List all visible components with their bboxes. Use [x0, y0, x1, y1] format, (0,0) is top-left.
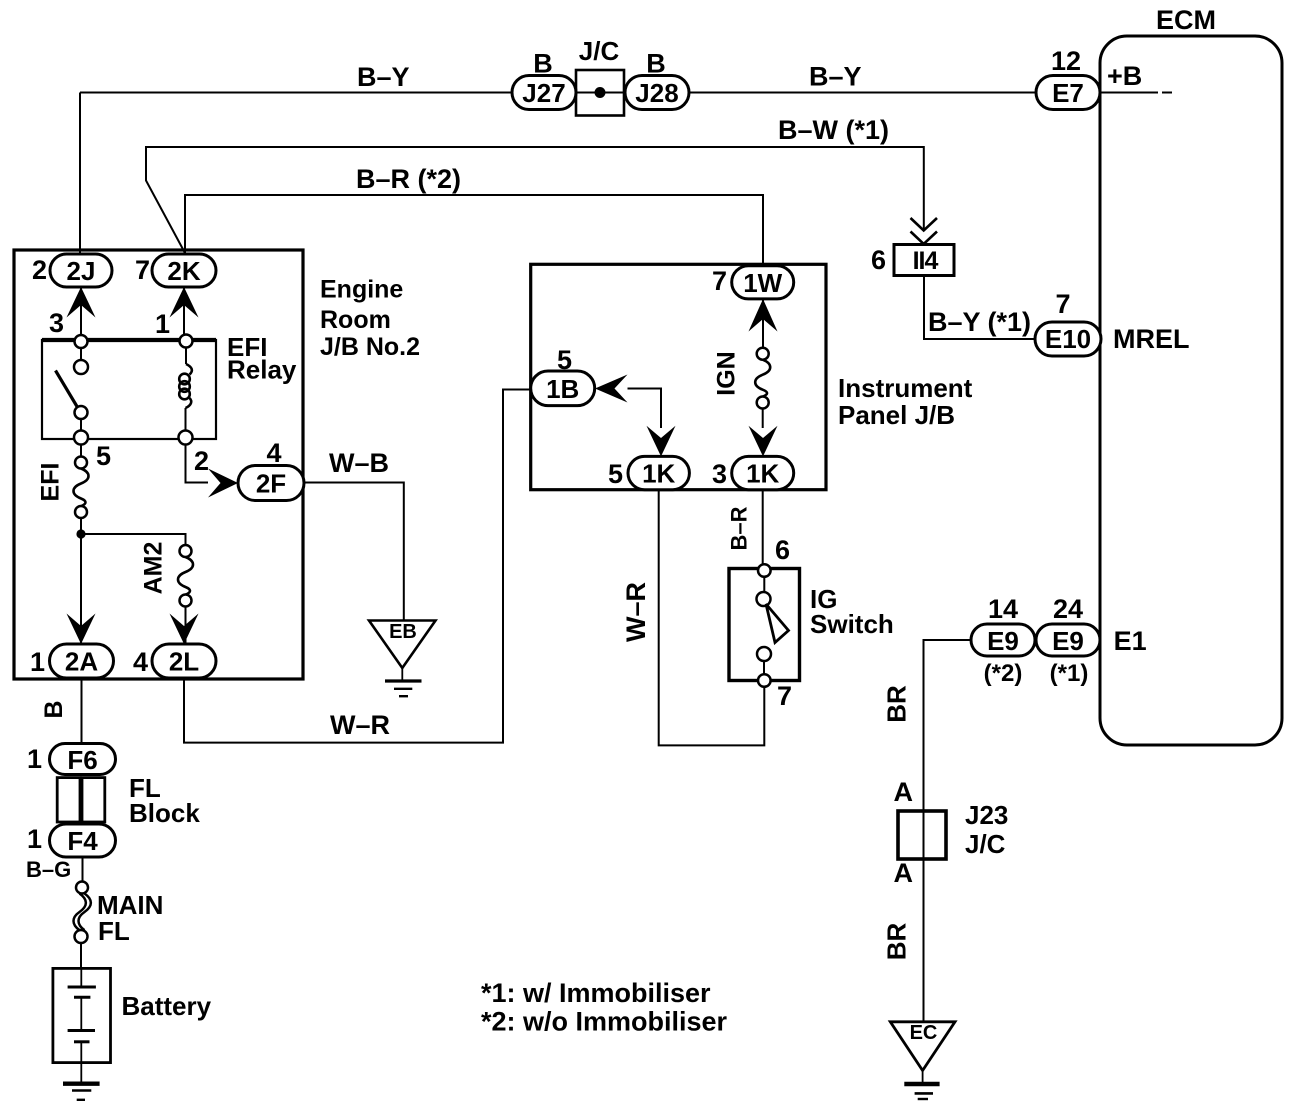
svg-text:B–Y: B–Y — [809, 62, 862, 92]
wire relay pin3 terminal to fixed contact — [80, 348, 82, 360]
svg-text:J/C: J/C — [579, 36, 620, 66]
label EFI Relay — [227, 332, 297, 385]
down arrow above 2L — [170, 614, 199, 645]
IG switch lower contact — [757, 647, 771, 661]
fuse IGN — [755, 348, 770, 409]
svg-text:E7: E7 — [1052, 78, 1084, 108]
svg-text:1: 1 — [27, 824, 42, 854]
up arrow below 1W — [749, 299, 778, 332]
ground EB triangle — [369, 621, 436, 669]
wire 2J to relay pin 3 — [80, 287, 82, 335]
svg-text:2: 2 — [194, 446, 209, 476]
svg-text:7: 7 — [1055, 289, 1070, 319]
connector 1W — [732, 266, 794, 299]
svg-text:Relay: Relay — [227, 355, 297, 385]
ECM box — [1100, 36, 1282, 745]
svg-text:B–G: B–G — [26, 857, 71, 882]
Instrument Panel J/B box — [531, 264, 826, 489]
svg-text:4: 4 — [133, 647, 148, 677]
svg-text:A: A — [894, 777, 914, 807]
svg-text:MREL: MREL — [1113, 324, 1190, 354]
wire B-R (*2) from 2K to 1W — [185, 195, 763, 266]
wire W-B from 2F to ground EB — [304, 483, 404, 621]
svg-text:1: 1 — [30, 647, 45, 677]
label Engine Room J/B No.2 — [320, 276, 420, 362]
svg-text:EB: EB — [389, 621, 417, 643]
up arrow below 2J — [67, 287, 96, 318]
connector E9 (*2) — [971, 624, 1035, 656]
svg-text:6: 6 — [871, 245, 886, 275]
label Instrument Panel J/B — [838, 373, 973, 430]
svg-text:J/C: J/C — [965, 829, 1006, 859]
ground below battery — [63, 1063, 100, 1100]
connector box II4 — [894, 245, 954, 276]
svg-text:AM2: AM2 — [140, 542, 168, 595]
svg-text:14: 14 — [988, 594, 1018, 624]
svg-text:J27: J27 — [522, 78, 565, 108]
svg-text:*2: w/o Immobiliser: *2: w/o Immobiliser — [481, 1007, 728, 1037]
connector 1K (pin 3) — [732, 456, 794, 489]
svg-text:1: 1 — [155, 309, 170, 339]
svg-text:1: 1 — [27, 744, 42, 774]
label J23 J/C — [965, 800, 1008, 859]
svg-text:E10: E10 — [1045, 324, 1091, 354]
Engine Room J/B No.2 box — [14, 250, 303, 679]
svg-text:12: 12 — [1051, 46, 1081, 76]
svg-text:B–Y: B–Y — [357, 62, 410, 92]
svg-text:J28: J28 — [635, 78, 678, 108]
svg-text:5: 5 — [608, 459, 623, 489]
up arrow below 2K — [170, 287, 199, 318]
relay terminal pin5 on box bottom — [74, 431, 88, 445]
svg-text:1W: 1W — [743, 268, 782, 298]
svg-text:B–W (*1): B–W (*1) — [778, 115, 889, 145]
svg-text:ECM: ECM — [1156, 5, 1216, 35]
relay terminal pin1 on box top — [180, 335, 193, 348]
relay switch blade — [56, 371, 79, 410]
junction connector box J/C — [576, 70, 624, 116]
left arrow into 1B — [595, 375, 628, 403]
wire B-Y from J28 to ECM pin E7 — [689, 92, 1036, 94]
svg-text:7: 7 — [777, 681, 792, 711]
wire junction to AM2 branch — [81, 534, 186, 546]
wire segment inside J/C box — [576, 92, 624, 94]
wire lower contact to pin7 — [763, 661, 765, 675]
wire B-R from 1K pin3 to IG switch pin6 — [762, 490, 764, 565]
svg-text:2: 2 — [32, 255, 47, 285]
wire IGN fuse to 1K arrow — [762, 409, 764, 429]
svg-text:3: 3 — [49, 308, 64, 338]
wire W-R from 1K pin5 to IG switch pin7 — [659, 490, 765, 746]
svg-text:W–R: W–R — [330, 710, 390, 740]
IG switch box — [729, 569, 800, 681]
connector E10 — [1035, 322, 1101, 356]
connector J27 — [512, 76, 576, 110]
wire B-Y top horizontal battery side to J27 — [80, 92, 512, 94]
wire inside J23 — [923, 811, 925, 859]
down arrow above 1K pin5 — [647, 426, 676, 457]
relay switch fixed contact — [74, 360, 88, 374]
fuse AM2 — [178, 545, 193, 607]
wire 1W arrow to IGN fuse — [762, 299, 764, 348]
svg-text:Switch: Switch — [810, 609, 894, 639]
IG switch blade wedge — [766, 604, 789, 643]
svg-text:B: B — [40, 700, 68, 718]
connector 2F — [238, 466, 304, 501]
svg-text:(*2): (*2) — [984, 660, 1023, 687]
svg-text:Panel J/B: Panel J/B — [838, 400, 955, 430]
svg-text:6: 6 — [775, 535, 790, 565]
wire 1B arrow to 1K pin5 arrow — [628, 389, 662, 429]
connector 2K — [152, 254, 216, 287]
battery box — [53, 968, 111, 1062]
svg-text:W–R: W–R — [621, 582, 651, 642]
junction dot — [76, 529, 85, 538]
svg-text:Room: Room — [320, 306, 391, 334]
svg-text:4: 4 — [266, 438, 281, 468]
battery cells — [68, 968, 96, 1062]
wire +B stub inside ECM — [1100, 92, 1172, 94]
connector F4 — [50, 824, 116, 857]
svg-text:IGN: IGN — [713, 351, 741, 395]
wire relay pin5 to EFI fuse — [80, 445, 82, 458]
svg-text:7: 7 — [135, 255, 150, 285]
wire relay pin2 to 2F — [186, 445, 209, 483]
relay switch lower contact — [75, 406, 88, 419]
wire coil to relay pin2 terminal — [185, 408, 187, 431]
svg-text:5: 5 — [96, 441, 111, 471]
wire relay pin1 to coil — [185, 348, 187, 365]
ground EC triangle — [890, 1022, 955, 1071]
svg-text:+B: +B — [1107, 61, 1142, 91]
svg-text:B–R: B–R — [727, 506, 752, 550]
svg-text:J/B No.2: J/B No.2 — [320, 333, 420, 361]
wire 2A to F6 — [81, 678, 83, 744]
down arrow above 2A — [67, 614, 96, 645]
wire B-Y left vertical from top run down to connector 2J — [79, 93, 81, 255]
wire 2K to relay pin 1 — [183, 287, 185, 334]
connector E7 — [1036, 76, 1100, 110]
svg-text:Battery: Battery — [122, 991, 212, 1021]
ground EC stroke marks — [904, 1071, 939, 1100]
svg-text:2K: 2K — [167, 256, 200, 286]
svg-text:2A: 2A — [65, 647, 98, 677]
wire AM2 fuse to 2L arrow — [185, 607, 187, 645]
svg-text:EFI: EFI — [37, 463, 65, 502]
ground EB stroke marks — [385, 668, 422, 696]
down arrow above 1K pin3 — [749, 426, 778, 457]
IG switch terminal pin7 — [758, 674, 771, 687]
svg-text:F4: F4 — [67, 826, 98, 856]
svg-text:24: 24 — [1053, 594, 1083, 624]
svg-text:(*1): (*1) — [1050, 660, 1089, 687]
connector 2J — [50, 254, 112, 287]
wire B-Y (*1) from II4 to E10 — [924, 276, 1035, 340]
connector 1K (pin 5) — [628, 456, 689, 489]
wire MAIN FL to battery — [80, 943, 82, 968]
svg-text:B–Y (*1): B–Y (*1) — [928, 307, 1031, 337]
connector F6 — [50, 744, 116, 776]
svg-text:BR: BR — [882, 685, 912, 723]
wire EFI fuse down through junction to 2A arrow — [80, 518, 82, 644]
junction dot inside J/C box — [595, 87, 606, 98]
svg-text:3: 3 — [712, 459, 727, 489]
wire relay switch contact to pin5 terminal — [80, 419, 82, 431]
connector 1B — [531, 371, 595, 406]
relay terminal pin3 on box top — [75, 335, 88, 348]
fuse EFI — [74, 457, 89, 519]
double chevron into connector II4 — [911, 218, 938, 244]
svg-text:J23: J23 — [965, 800, 1008, 830]
svg-text:FL: FL — [98, 916, 130, 946]
svg-text:*1: w/ Immobiliser: *1: w/ Immobiliser — [481, 978, 711, 1008]
svg-text:7: 7 — [712, 266, 727, 296]
svg-text:Block: Block — [129, 798, 200, 828]
svg-text:E9: E9 — [1052, 626, 1084, 656]
connector 2A — [50, 644, 114, 678]
svg-text:2J: 2J — [67, 256, 96, 286]
IG switch terminal pin6 — [758, 564, 771, 577]
connector J28 — [625, 76, 689, 110]
svg-text:1K: 1K — [642, 459, 675, 489]
svg-text:E9: E9 — [987, 626, 1019, 656]
svg-text:Instrument: Instrument — [838, 373, 973, 403]
FL block body — [57, 778, 105, 822]
label MAIN FL — [97, 890, 163, 946]
right arrow into 2F — [208, 469, 238, 498]
svg-text:2L: 2L — [169, 647, 199, 677]
wire W-R from 2L down and right to 1B riser — [184, 390, 531, 743]
wire BR from E9 to J23 — [924, 640, 972, 811]
svg-text:A: A — [894, 858, 914, 888]
IG switch movable contact — [757, 592, 771, 606]
svg-text:EC: EC — [910, 1022, 938, 1044]
junction connector box J23 — [898, 811, 946, 859]
svg-text:1K: 1K — [746, 459, 779, 489]
connector 2L — [152, 644, 216, 678]
wire pin6 to movable contact — [763, 577, 765, 592]
label IG Switch — [810, 584, 894, 639]
svg-text:W–B: W–B — [329, 448, 389, 478]
wire B-W (*1) horizontal run with left drop to 2K — [146, 147, 924, 253]
svg-text:E1: E1 — [1114, 626, 1147, 656]
wire through J/C box J27 to J28 — [576, 92, 625, 94]
relay terminal pin2 on box bottom — [179, 431, 193, 445]
svg-text:B–R (*2): B–R (*2) — [356, 164, 461, 194]
EFI relay box — [42, 340, 216, 439]
svg-text:BR: BR — [882, 923, 912, 961]
relay coil — [179, 364, 192, 408]
svg-text:II4: II4 — [913, 247, 939, 275]
svg-text:Engine: Engine — [320, 276, 403, 304]
connector E9 (*1) — [1036, 624, 1100, 656]
svg-text:F6: F6 — [67, 745, 97, 775]
wire BR from J23 to ground EC — [923, 859, 925, 1022]
svg-text:2F: 2F — [256, 469, 286, 499]
svg-text:1B: 1B — [546, 374, 579, 404]
fusible link MAIN FL — [74, 882, 91, 944]
label FL Block — [129, 773, 200, 828]
wire F4 to MAIN FL — [82, 857, 84, 882]
